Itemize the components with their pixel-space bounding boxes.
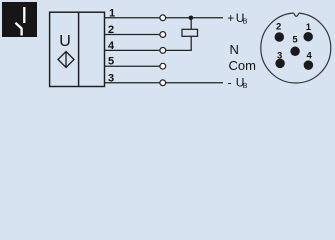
svg-text:5: 5 (292, 35, 298, 46)
svg-text:U: U (59, 33, 71, 50)
svg-text:4: 4 (108, 40, 115, 52)
svg-text:3: 3 (108, 72, 114, 84)
svg-text:Com: Com (229, 58, 256, 73)
svg-text:+: + (227, 11, 234, 25)
svg-text:4: 4 (307, 50, 313, 61)
svg-text:3: 3 (277, 50, 282, 61)
svg-text:2: 2 (276, 22, 281, 33)
svg-text:N: N (230, 42, 239, 57)
svg-text:5: 5 (108, 56, 114, 68)
svg-text:B: B (243, 19, 248, 26)
svg-text:1: 1 (109, 7, 115, 19)
svg-text:1: 1 (306, 22, 312, 33)
svg-text:2: 2 (108, 24, 114, 36)
svg-text:B: B (243, 83, 248, 90)
svg-text:-: - (228, 76, 232, 90)
